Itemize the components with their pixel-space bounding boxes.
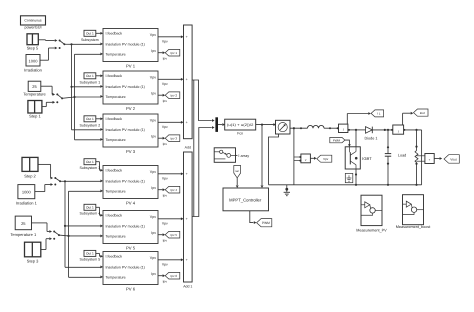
svg-text:Temperature: Temperature <box>106 189 126 193</box>
svg-text:PV 2: PV 2 <box>126 106 136 111</box>
svg-text:Vpv: Vpv <box>150 256 156 260</box>
svg-text:Insolation PV module (1): Insolation PV module (1) <box>106 179 145 183</box>
svg-text:PWM: PWM <box>262 221 270 225</box>
svg-text:Vpv: Vpv <box>150 215 156 219</box>
svg-text:Temperature: Temperature <box>106 138 126 142</box>
svg-text:Vpv: Vpv <box>162 221 168 225</box>
svg-text:Ipv 2: Ipv 2 <box>171 94 178 98</box>
svg-text:Irradiation: Irradiation <box>24 68 42 73</box>
svg-text:Insolation PV module (1): Insolation PV module (1) <box>106 42 145 46</box>
svg-text:Step 3: Step 3 <box>27 258 39 263</box>
svg-text:Vpv: Vpv <box>150 76 156 80</box>
svg-text:PV 5: PV 5 <box>126 246 136 251</box>
svg-text:powerGUI: powerGUI <box>24 26 41 30</box>
svg-text:Out 1: Out 1 <box>86 252 94 256</box>
svg-text:I.feedback: I.feedback <box>106 214 123 218</box>
svg-text:+: + <box>186 78 188 82</box>
svg-text:Vout: Vout <box>450 157 456 161</box>
svg-text:Ipv: Ipv <box>151 92 156 96</box>
svg-text:Iarr: Iarr <box>235 170 239 173</box>
svg-text:Vpv: Vpv <box>150 170 156 174</box>
svg-text:Temperature: Temperature <box>106 95 126 99</box>
svg-text:I.feedback: I.feedback <box>106 255 123 259</box>
svg-text:Fcn: Fcn <box>237 132 243 136</box>
svg-text:(u(1) + u(2))/2: (u(1) + u(2))/2 <box>227 123 254 127</box>
svg-text:1000: 1000 <box>29 58 39 63</box>
svg-text:Ipv: Ipv <box>151 272 156 276</box>
svg-text:Vpv: Vpv <box>150 33 156 37</box>
svg-text:Vpv: Vpv <box>162 262 168 266</box>
svg-text:+: + <box>186 172 188 176</box>
svg-text:Vpv: Vpv <box>162 125 168 129</box>
svg-text:Temperature: Temperature <box>106 52 126 56</box>
svg-text:IGBT: IGBT <box>362 156 372 161</box>
svg-text:Insolation PV module (1): Insolation PV module (1) <box>106 85 145 89</box>
svg-text:v: v <box>305 158 307 162</box>
svg-text:Step 1: Step 1 <box>29 113 41 118</box>
svg-text:Subsystem 2: Subsystem 2 <box>80 123 101 127</box>
svg-text:Insolation PV module (1): Insolation PV module (1) <box>106 265 145 269</box>
svg-text:+: + <box>186 121 188 125</box>
svg-text:I.feedback: I.feedback <box>106 32 123 36</box>
svg-text:Temperature 1: Temperature 1 <box>10 232 37 237</box>
svg-text:25: 25 <box>21 221 26 226</box>
svg-text:Out 1: Out 1 <box>86 32 94 36</box>
svg-text:+: + <box>186 258 188 262</box>
svg-text:Step 5: Step 5 <box>27 45 39 50</box>
svg-text:Insolation PV module (1): Insolation PV module (1) <box>106 128 145 132</box>
svg-text:Continuous: Continuous <box>24 19 41 23</box>
svg-text:Out 1: Out 1 <box>86 117 94 121</box>
svg-text:Step 2: Step 2 <box>24 173 36 178</box>
svg-text:Insolation PV module (1): Insolation PV module (1) <box>106 224 145 228</box>
svg-text:I.feedback: I.feedback <box>106 74 123 78</box>
svg-text:Ipv 3: Ipv 3 <box>171 137 178 141</box>
svg-text:Ipv: Ipv <box>163 99 168 103</box>
svg-text:I L: I L <box>377 112 381 116</box>
svg-text:PWM: PWM <box>333 138 341 142</box>
svg-text:+: + <box>186 35 188 39</box>
svg-text:i: i <box>343 128 344 132</box>
svg-text:Ipv: Ipv <box>151 231 156 235</box>
svg-text:Subsystem 4: Subsystem 4 <box>80 212 101 216</box>
svg-text:Load: Load <box>398 154 406 158</box>
svg-text:Subsystem 3: Subsystem 3 <box>80 166 101 170</box>
svg-text:I.feedback: I.feedback <box>106 169 123 173</box>
svg-text:Subsystem: Subsystem <box>81 38 99 42</box>
svg-text:I.feedback: I.feedback <box>106 117 123 121</box>
svg-text:Ipv: Ipv <box>163 142 168 146</box>
svg-text:Ipv: Ipv <box>163 280 168 284</box>
svg-text:Temperature: Temperature <box>23 92 46 97</box>
svg-text:Vpv: Vpv <box>150 119 156 123</box>
svg-text:Out 1: Out 1 <box>86 206 94 210</box>
svg-text:PV 4: PV 4 <box>126 201 136 206</box>
svg-text:25: 25 <box>32 84 37 89</box>
svg-text:1000: 1000 <box>22 190 32 195</box>
svg-text:Diode 1: Diode 1 <box>364 137 377 141</box>
svg-text:Iout: Iout <box>420 111 425 115</box>
svg-text:Ipv: Ipv <box>163 239 168 243</box>
svg-text:Measurement_PV: Measurement_PV <box>356 229 387 233</box>
svg-text:Vpv: Vpv <box>323 157 329 161</box>
svg-text:Add: Add <box>185 145 191 149</box>
svg-text:Temperature: Temperature <box>106 234 126 238</box>
svg-text:Measurement_boost: Measurement_boost <box>396 225 432 229</box>
svg-text:Subsystem 5: Subsystem 5 <box>80 258 101 262</box>
svg-text:Temperature: Temperature <box>106 275 126 279</box>
svg-text:Ipv: Ipv <box>163 194 168 198</box>
svg-text:Ipv: Ipv <box>151 186 156 190</box>
svg-text:PV 1: PV 1 <box>126 64 136 69</box>
svg-text:PV 6: PV 6 <box>126 287 136 292</box>
svg-text:Irradiation 1: Irradiation 1 <box>16 201 38 206</box>
svg-text:I array: I array <box>238 154 249 158</box>
svg-text:Out 1: Out 1 <box>86 160 94 164</box>
svg-text:Vpv: Vpv <box>162 82 168 86</box>
svg-text:Ipv: Ipv <box>163 57 168 61</box>
svg-text:+: + <box>186 217 188 221</box>
svg-text:MPPT_Controller: MPPT_Controller <box>229 197 262 202</box>
svg-text:Ipv 6: Ipv 6 <box>171 274 178 278</box>
svg-text:Ipv 1: Ipv 1 <box>171 51 178 55</box>
svg-text:Ipv 5: Ipv 5 <box>171 233 178 237</box>
svg-text:PV 3: PV 3 <box>126 149 136 154</box>
svg-text:v: v <box>429 157 431 161</box>
svg-text:Add 1: Add 1 <box>183 285 192 289</box>
svg-text:i: i <box>398 129 399 133</box>
svg-text:Vpv: Vpv <box>162 39 168 43</box>
svg-text:Vpv: Vpv <box>162 176 168 180</box>
svg-text:Ipv: Ipv <box>151 135 156 139</box>
svg-text:Ipv: Ipv <box>151 49 156 53</box>
svg-text:Ipv 4: Ipv 4 <box>171 188 178 192</box>
svg-text:Out 1: Out 1 <box>86 74 94 78</box>
svg-text:Subsystem 1: Subsystem 1 <box>80 80 101 84</box>
